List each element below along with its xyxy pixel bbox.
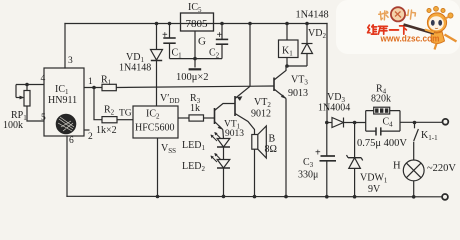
IC2 HFC5600 melody IC: [133, 106, 178, 138]
wire R2 to IC2 TG: [117, 119, 133, 121]
wire R1 to VT3 base (long horizontal): [116, 86, 274, 88]
svg-text:7805: 7805: [186, 18, 209, 30]
arc text 找芯片: [378, 11, 388, 21]
svg-text:9V: 9V: [368, 184, 381, 195]
node VD1 top rail junction: [155, 22, 159, 26]
svg-text:1N4148: 1N4148: [296, 10, 329, 21]
resistor R3: [178, 117, 189, 119]
switch K1-1: [414, 123, 419, 161]
wire IC2 Vss to ground rail: [157, 138, 159, 197]
capacitor C4: [376, 127, 381, 135]
svg-text:1: 1: [88, 77, 93, 87]
red brand text: [368, 25, 409, 34]
svg-text:B: B: [269, 134, 276, 145]
resistor R2: [102, 117, 117, 123]
wire pin1 junction down to R2: [94, 88, 102, 120]
wire VT2 emitter to top rail: [249, 24, 251, 87]
node lamp rail junction: [412, 195, 416, 199]
svg-text:100k: 100k: [3, 120, 23, 131]
svg-text:1k: 1k: [190, 103, 200, 114]
svg-text:8Ω: 8Ω: [265, 144, 277, 155]
watermark white backdrop: [336, 0, 460, 54]
ground bar for 7805: [189, 68, 202, 70]
watermark logo dzsc: [336, 0, 460, 54]
R4/C4 parallel block: [366, 111, 443, 132]
node C1 rail junction: [168, 22, 172, 26]
svg-text:VDW1: VDW1: [360, 173, 388, 185]
capacitor C3 330u: [320, 123, 337, 197]
diode VD1 1N4148: [151, 24, 163, 107]
svg-text:+: +: [315, 148, 321, 159]
node pin1 junction: [92, 86, 96, 90]
svg-text:G: G: [198, 36, 206, 48]
capacitor C2 100u: [216, 24, 228, 59]
wire IC1 pin1 to R1: [84, 87, 102, 89]
potentiometer RP1: [16, 85, 44, 122]
diode VD2 1N4148: [302, 24, 313, 67]
wire K1/VD2 bottom join: [287, 65, 307, 67]
resistor R1: [102, 84, 116, 90]
node switch junction: [413, 121, 417, 125]
wire top supply rail: [65, 23, 327, 25]
svg-text:1N4148: 1N4148: [119, 63, 151, 74]
svg-text:9013: 9013: [225, 129, 244, 139]
node pot top junction: [25, 83, 29, 87]
transistor VT1 9013: [215, 104, 236, 139]
wire IC1 pin4: [16, 84, 44, 86]
node VT2 rail junction: [248, 22, 252, 26]
node LED2-rail junction: [222, 195, 226, 199]
node VD3 anode junction: [325, 121, 329, 125]
resistor R4 820k: [374, 107, 390, 114]
node collector join: [285, 64, 289, 68]
node G junction: [193, 57, 197, 61]
wire 7805 G pin: [194, 31, 196, 68]
lamp H: [403, 160, 424, 197]
svg-text:330μ: 330μ: [298, 170, 318, 181]
wire C1-C2 bottom connector: [170, 58, 223, 60]
svg-text:820k: 820k: [371, 94, 391, 105]
wire right supply vertical: [326, 24, 328, 123]
node VT3 emitter rail junction: [284, 195, 288, 199]
svg-text:2: 2: [88, 132, 93, 142]
speaker B 8ohm: [252, 126, 266, 197]
node C2 rail junction: [220, 22, 224, 26]
svg-text:0.75μ 400V: 0.75μ 400V: [357, 138, 407, 149]
node speaker-rail junction: [253, 195, 257, 199]
node VD3 cathode junction: [353, 121, 357, 125]
capacitor C1 100u: [163, 24, 175, 59]
svg-text:9012: 9012: [251, 109, 271, 120]
svg-text:100μ×2: 100μ×2: [176, 72, 209, 83]
wire IC1 pin3 vertical: [64, 24, 66, 69]
wire IC1 pin6 vertical: [66, 136, 68, 196]
relay coil K1: [279, 24, 299, 67]
mascot: [404, 6, 457, 49]
svg-text:HFC5600: HFC5600: [135, 123, 174, 134]
LED1: [217, 139, 230, 160]
microphone symbol inside IC1: [56, 114, 76, 134]
IC5 7805 regulator: [181, 13, 214, 31]
node VDW1 rail junction: [353, 195, 357, 199]
svg-text:9013: 9013: [288, 88, 308, 99]
svg-text:HN911: HN911: [48, 95, 77, 106]
svg-text:+: +: [217, 30, 223, 41]
IC1 HN911 sound/voice IC: [44, 68, 84, 136]
svg-text:3: 3: [68, 56, 73, 66]
svg-text:6: 6: [69, 136, 74, 146]
diode VD3 1N4004: [327, 118, 366, 128]
terminal upper (AC input): [443, 119, 449, 125]
svg-text:1N4004: 1N4004: [318, 103, 350, 114]
svg-text:+: +: [162, 30, 168, 41]
node Vss-rail junction: [156, 195, 160, 199]
node K1 rail junction: [285, 22, 289, 26]
node VD2 rail junction: [305, 22, 309, 26]
zener diode VDW1 9V: [347, 123, 363, 197]
svg-text:4: 4: [41, 74, 46, 84]
wire bottom ground rail: [67, 195, 442, 198]
transistor VT3 9013: [274, 66, 286, 197]
terminal lower (AC input): [442, 194, 448, 200]
LED2: [217, 160, 230, 197]
wire IC1 pin2 stub: [84, 129, 90, 131]
svg-text:www.dzsc.com: www.dzsc.com: [380, 33, 440, 44]
node C3 rail junction: [325, 195, 329, 199]
svg-text:~220V: ~220V: [427, 163, 456, 174]
svg-text:1k×2: 1k×2: [96, 125, 117, 136]
svg-text:TG: TG: [119, 109, 132, 119]
transistor VT2 9012: [235, 86, 255, 134]
svg-text:H: H: [393, 161, 401, 172]
